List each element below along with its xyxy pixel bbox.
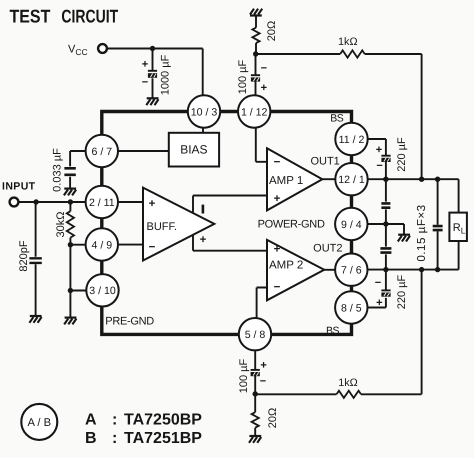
capacitor 100uF bottom [238,358,267,393]
wire pin 4/9 to BUFF - [118,244,143,246]
svg-text:−: − [142,77,148,89]
svg-text:12 / 1: 12 / 1 [338,174,365,186]
resistor 20 ohm bottom [252,408,279,428]
svg-text:−: − [261,63,267,75]
svg-text:CIRCUIT: CIRCUIT [61,5,118,26]
capacitor 0.15uF no.1 [381,203,390,207]
junction Vcc/1000uF [150,46,155,51]
wire pin 6/7 to BIAS [118,150,169,152]
svg-text:0.033 µF: 0.033 µF [51,148,63,192]
svg-text:9 / 4: 9 / 4 [341,219,362,231]
wire BUFF to AMP1 input [193,195,267,197]
junction 30k/pin4-9 [68,242,73,247]
svg-text:20Ω: 20Ω [266,21,278,41]
svg-text:3 / 10: 3 / 10 [89,285,116,297]
wire BUFF output vertical [192,196,194,251]
svg-text:1 / 12: 1 / 12 [241,106,268,118]
svg-text:BS: BS [326,325,340,337]
pin 1/12 [238,95,270,127]
junction 100uF/1k bottom [253,391,258,396]
legend A/B circle [21,404,57,440]
pin 4/9 [86,228,118,260]
capacitor 1000uF [142,54,172,95]
capacitor 0.15uF no.2 [380,248,391,252]
svg-text:−: − [376,160,382,172]
svg-text:BIAS: BIAS [180,143,207,157]
pin 9/4 [335,208,367,240]
wire pin 8/5 bootstrap branch [368,270,386,308]
pin 7/6 [335,254,367,286]
svg-text:+: + [142,59,148,71]
svg-text:220 µF: 220 µF [396,274,408,309]
svg-text:2 / 11: 2 / 11 [89,197,115,209]
capacitor 220uF bottom [375,274,408,309]
junction OUT1/220uF [383,177,388,182]
svg-text:100 µF: 100 µF [237,59,249,94]
svg-text:6 / 7: 6 / 7 [91,146,112,158]
svg-text:30kΩ: 30kΩ [55,212,67,238]
resistor 30k ohm [55,211,74,237]
svg-text:820pF: 820pF [18,240,30,271]
svg-text:−: − [274,282,281,294]
svg-text:+: + [261,82,267,94]
pin 8/5 [335,291,367,323]
junction OUT2/cap3 [435,267,440,272]
ground 820pF [29,316,41,323]
wire 0.15uF cap3 column [437,179,439,269]
wire pin 9/4 power-gnd [368,224,404,235]
pin 12/1 [335,163,367,195]
svg-text:220 µF: 220 µF [396,137,408,172]
capacitor 0.15uF no.3 [433,226,443,230]
wire 0.15uF cap2 column [385,224,387,270]
svg-text:OUT1: OUT1 [310,155,339,167]
svg-text:1kΩ: 1kΩ [338,377,357,389]
svg-text:AMP 2: AMP 2 [269,259,303,271]
svg-text:0.15 µF×3: 0.15 µF×3 [415,204,428,261]
svg-text:+: + [149,198,156,210]
wire 820pF branch [35,202,37,316]
resistor 20 ohm top [252,21,278,43]
pin 10/3 [188,95,220,127]
junction OUT2/1k rail [419,267,424,272]
wire pin 2/11 to BUFF + [118,201,143,203]
wire INPUT line [19,201,86,203]
svg-text:BS: BS [330,113,344,125]
wire top 100uF column [255,54,257,96]
IC package boundary [102,112,352,335]
svg-text:−: − [274,157,281,169]
capacitor 820pF [18,240,42,271]
svg-text:20Ω: 20Ω [267,408,279,428]
svg-text:+: + [274,193,281,205]
pin 5/8 [239,318,271,350]
pin 11/2 [335,123,367,155]
label BUFF [147,198,178,254]
svg-text:TEST: TEST [10,5,51,26]
svg-text:+: + [200,234,207,246]
BIAS block [169,133,219,167]
junction 20ohm/100uF/1k [253,51,258,56]
wire load rail with RL [458,179,460,269]
svg-text:7 / 6: 7 / 6 [341,265,362,277]
label AMP1 [269,157,303,205]
wire to pin 3/10 [70,290,86,292]
wire top 20 ohm / 1k ohm feedback rail [256,15,422,179]
wire 0.033uF branch [70,151,86,189]
svg-text:8 / 5: 8 / 5 [341,302,362,314]
svg-text:+: + [376,144,382,156]
svg-text:+: + [260,360,266,372]
wire pin 10/3 to BIAS [202,128,204,133]
capacitor 0.033uF [51,148,75,192]
wire 1000uF branch [152,49,154,99]
svg-text:1kΩ: 1kΩ [338,36,357,48]
wire pin 1/12 to AMP1 inverting input [256,128,267,162]
ground power-gnd [398,235,410,242]
op-amp AMP2 [267,240,324,300]
capacitor 220uF top [376,137,408,172]
pin 6/7 [86,135,118,167]
resistor 1k ohm top [338,36,365,58]
ground bottom 20 ohm [249,436,261,443]
op-amp AMP1 [267,148,322,210]
ground 30k [64,318,76,325]
svg-text:10 / 3: 10 / 3 [191,106,218,118]
svg-text:A / B: A / B [27,417,51,429]
svg-text:11 / 2: 11 / 2 [339,134,365,146]
svg-text:B:TA7251BP: B:TA7251BP [85,430,202,447]
junction 9/4 gnd [383,221,388,226]
junction 30k/pin3-10 [68,288,73,293]
wire OUT2 row [368,269,459,271]
svg-text:1000 µF: 1000 µF [160,54,172,95]
wire 30k column [69,202,71,318]
junction OUT2/220uF [383,267,388,272]
junction OUT1/cap3 [435,177,440,182]
polarity bar at BUFF output [202,205,205,214]
ground top 20 ohm [250,9,262,16]
resistor RL box [449,213,467,241]
svg-text:+: + [376,297,382,309]
label AMP2 [269,243,303,293]
wire pin 5/8 column [254,351,256,436]
svg-text:−: − [375,277,381,289]
wire to pin 4/9 [70,244,85,246]
wire Vcc rail to pin 10/3 [107,49,203,96]
svg-text:INPUT: INPUT [2,180,36,192]
wire 0.15uF cap1 column [385,179,387,224]
pin 3/10 [86,274,118,306]
svg-text:POWER-GND: POWER-GND [258,219,325,231]
svg-text:VCC: VCC [68,44,88,58]
svg-text:+: + [274,243,281,255]
svg-text:−: − [260,375,266,387]
capacitor 100uF top [237,59,267,94]
pin 2/11 [86,186,118,218]
ground 0.033uF [64,189,76,196]
wire AMP2 inverting input to pin 5/8 [257,288,267,318]
INPUT terminal [10,198,19,207]
svg-text:4 / 9: 4 / 9 [91,239,112,251]
resistor 1k ohm bottom [337,377,362,398]
svg-text:5 / 8: 5 / 8 [245,329,266,341]
junction input/820pF [33,199,38,204]
ground 1000uF [146,98,158,105]
svg-text:PRE-GND: PRE-GND [105,316,154,328]
wire AMP2 output to pin 7/6 [324,269,335,271]
svg-text:100 µF: 100 µF [238,358,250,393]
svg-text:AMP 1: AMP 1 [269,175,303,187]
svg-text:A:TA7250BP: A:TA7250BP [85,412,202,429]
junction OUT1/1k rail [419,177,424,182]
Vcc terminal [98,44,107,53]
svg-text:OUT2: OUT2 [313,242,342,254]
op-amp BUFF [143,188,214,261]
wire OUT1 row [368,178,459,180]
wire AMP1 output to pin 12/1 [322,178,335,180]
junction input/30k [68,199,73,204]
wire BUFF to AMP2 input [193,250,267,252]
svg-text:−: − [149,241,156,253]
wire pin 11/2 bootstrap branch [368,139,386,179]
wire bottom 1k ohm feedback rail [255,270,421,395]
svg-text:BUFF.: BUFF. [147,221,178,233]
